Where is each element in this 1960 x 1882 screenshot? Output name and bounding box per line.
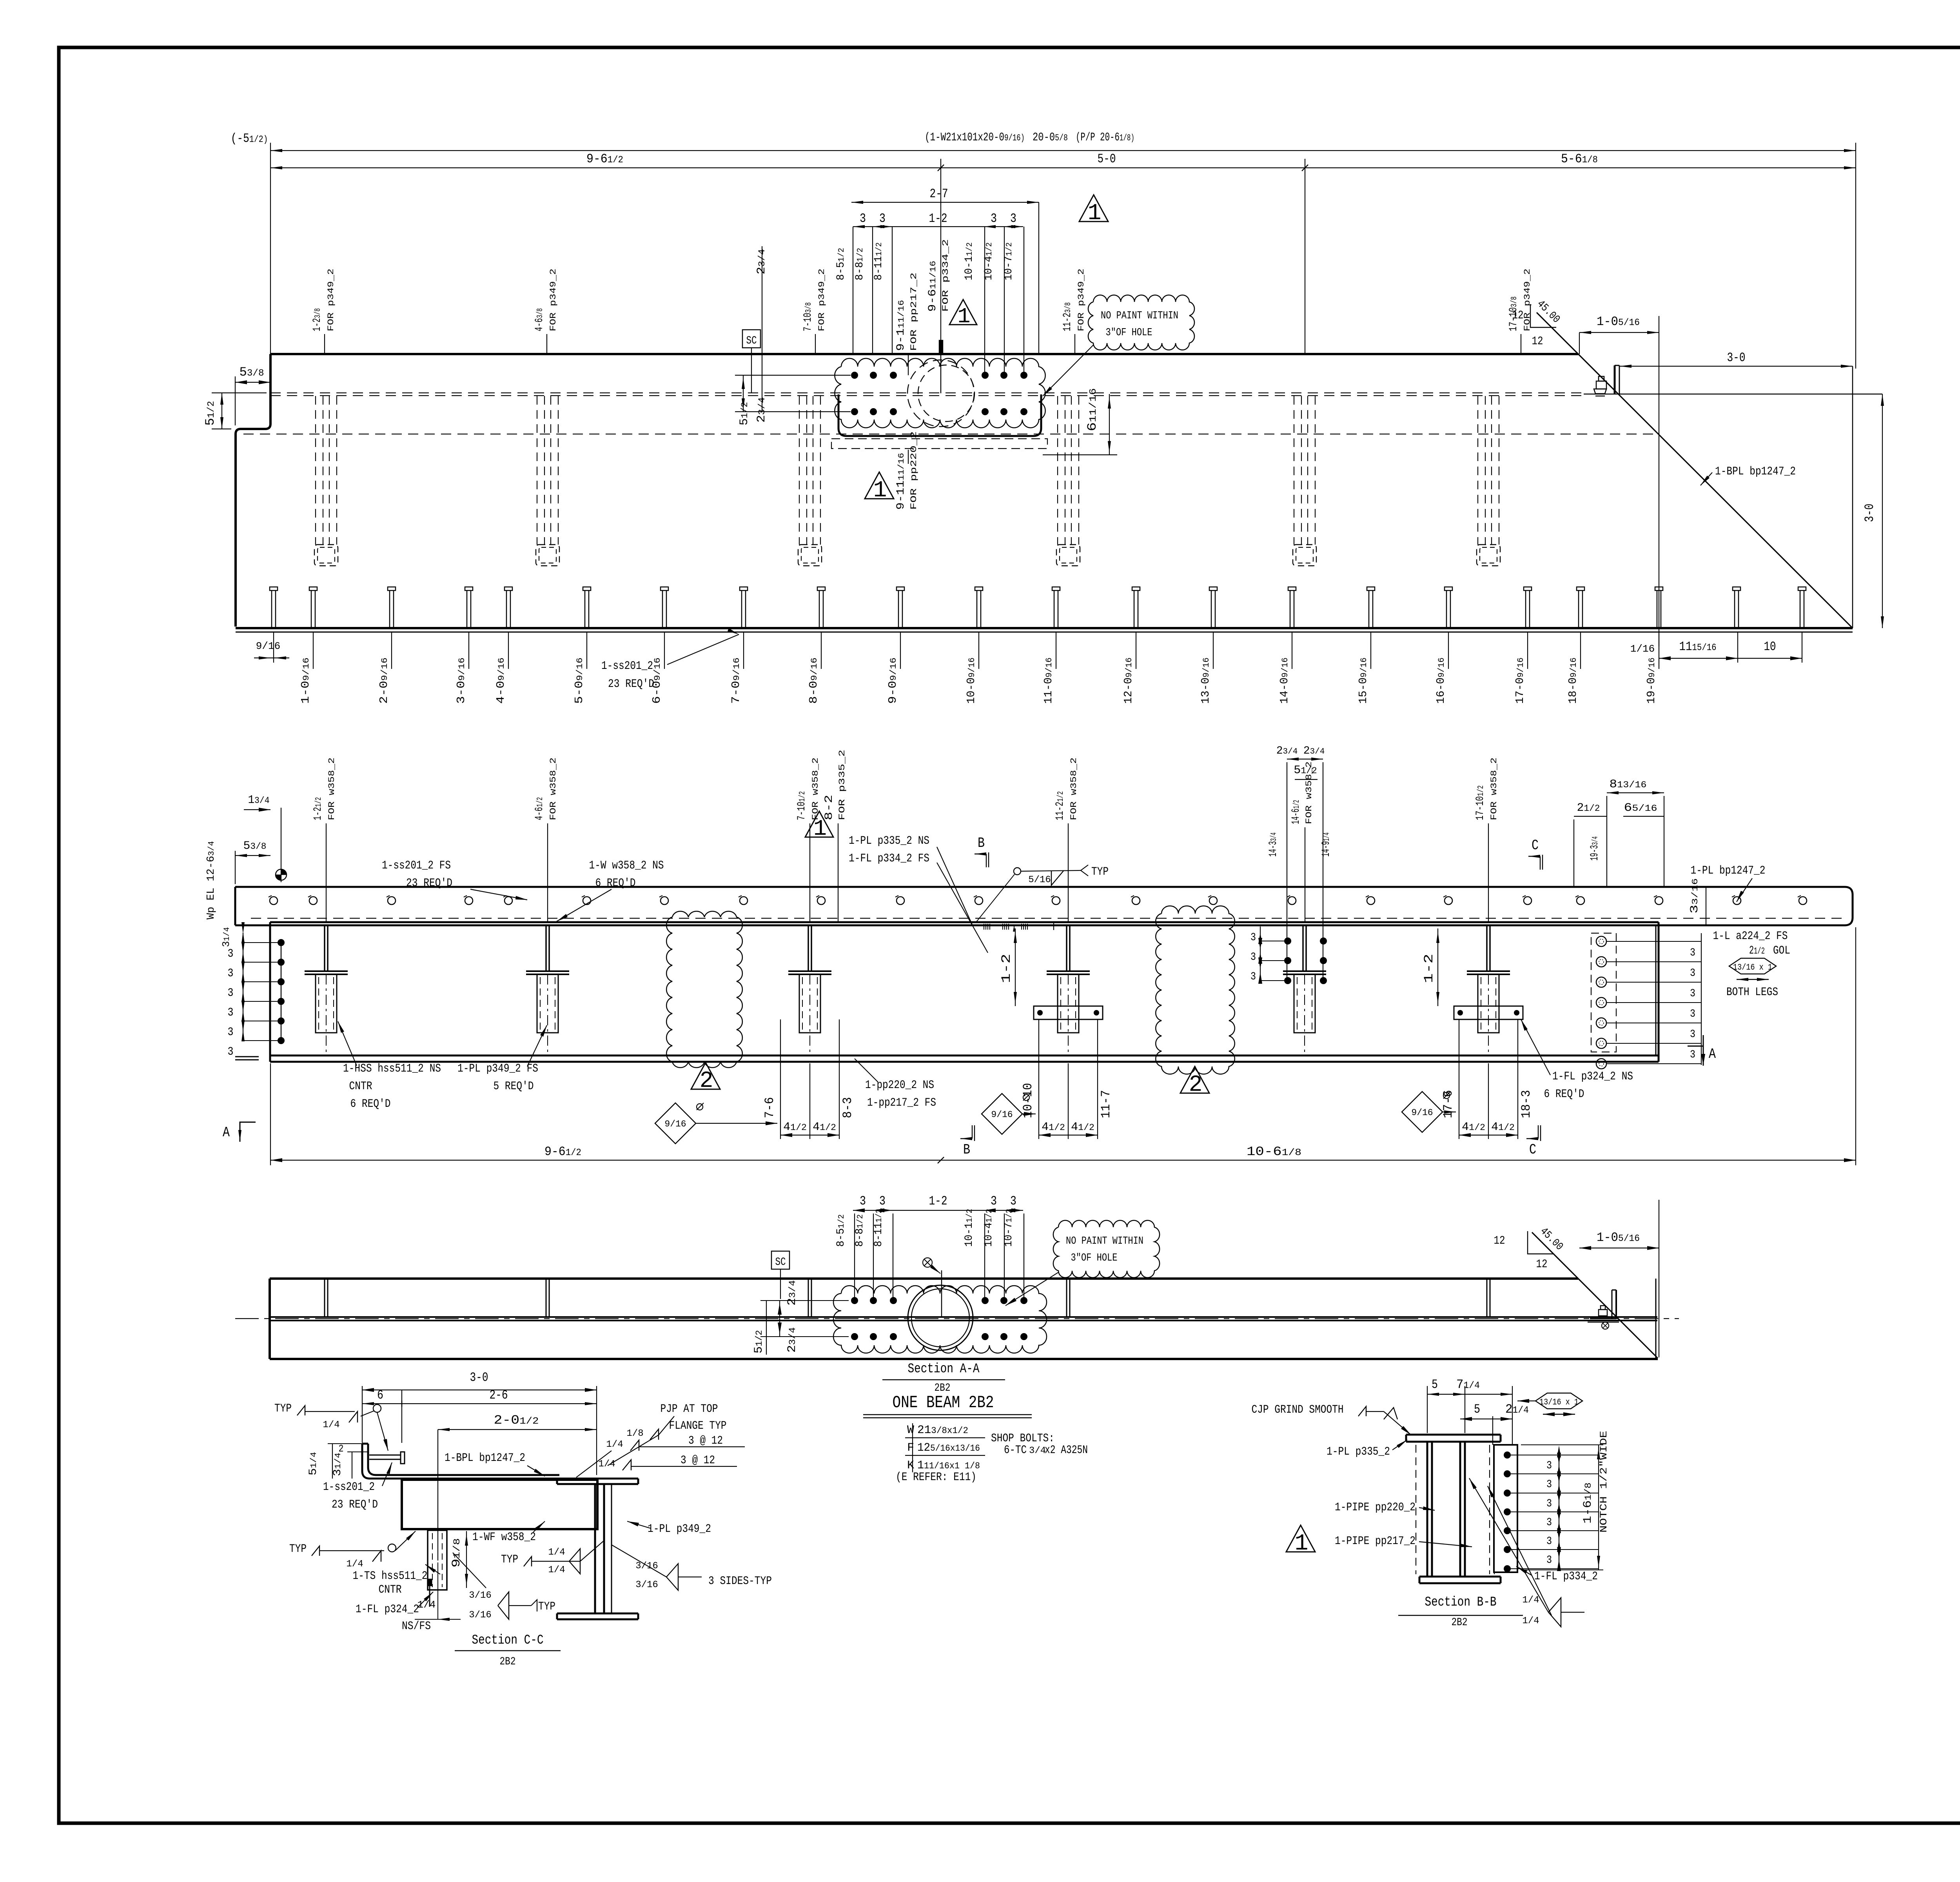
svg-text:41/2: 41/2 xyxy=(1042,1121,1065,1134)
svg-text:NO PAINT WITHIN: NO PAINT WITHIN xyxy=(1101,310,1178,322)
svg-text:3/16: 3/16 xyxy=(635,1580,658,1590)
elev p335 plate hatch ticks on flange xyxy=(984,924,984,930)
svg-text:13/4: 13/4 xyxy=(248,794,270,807)
svg-text:3: 3 xyxy=(1546,1479,1552,1491)
svg-text:FOR p349_2: FOR p349_2 xyxy=(1523,269,1532,331)
svg-text:1-W w358_2 NS: 1-W w358_2 NS xyxy=(589,859,664,872)
svg-text:FOR w358_2: FOR w358_2 xyxy=(327,758,337,820)
svg-text:6 REQ'D: 6 REQ'D xyxy=(595,877,636,890)
elev band hidden edge dashed xyxy=(251,918,1842,919)
svg-text:SC: SC xyxy=(775,1256,786,1268)
bottom view right-end vertical ext xyxy=(1659,1200,1659,1357)
svg-text:1-PIPE pp217_2: 1-PIPE pp217_2 xyxy=(1335,1535,1416,1548)
secBB beam section xyxy=(1406,1434,1501,1436)
svg-text:9/16: 9/16 xyxy=(1411,1108,1433,1118)
svg-text:213/8x1/2: 213/8x1/2 xyxy=(917,1424,968,1437)
svg-text:Section A-A: Section A-A xyxy=(908,1362,980,1377)
svg-text:x2 A325N: x2 A325N xyxy=(1045,1444,1088,1457)
svg-text:3: 3 xyxy=(1010,1194,1016,1208)
svg-text:Section B-B: Section B-B xyxy=(1425,1595,1497,1610)
svg-text:1-FL p324_2: 1-FL p324_2 xyxy=(356,1603,419,1616)
top view bolt dots in sleeve xyxy=(851,372,858,379)
svg-text:3"OF HOLE: 3"OF HOLE xyxy=(1071,1252,1118,1264)
svg-text:1: 1 xyxy=(873,478,887,503)
svg-text:1-FL p324_2 NS: 1-FL p324_2 NS xyxy=(1552,1070,1633,1083)
elev weld diamonds 9/16 xyxy=(655,1103,696,1144)
svg-text:1: 1 xyxy=(1088,201,1102,226)
svg-text:3: 3 xyxy=(1250,971,1256,983)
svg-text:2B2: 2B2 xyxy=(935,1382,951,1394)
svg-text:3: 3 xyxy=(860,211,866,226)
svg-text:813/16: 813/16 xyxy=(1610,778,1647,791)
svg-text:2B2: 2B2 xyxy=(1452,1617,1468,1629)
svg-text:3: 3 xyxy=(1250,932,1256,944)
svg-text:1-PL p335_2 NS: 1-PL p335_2 NS xyxy=(849,834,929,848)
svg-text:51/2: 51/2 xyxy=(738,402,751,425)
svg-text:1-ss201_2: 1-ss201_2 xyxy=(601,659,653,673)
svg-text:FOR p349_2: FOR p349_2 xyxy=(1076,269,1086,331)
top view right-end vertical edge xyxy=(1659,316,1659,647)
svg-text:5 REQ'D: 5 REQ'D xyxy=(494,1080,534,1093)
svg-text:6 REQ'D: 6 REQ'D xyxy=(1544,1088,1584,1101)
svg-text:51/2: 51/2 xyxy=(752,1330,766,1353)
elev beam outline xyxy=(270,921,1659,923)
svg-text:A: A xyxy=(1709,1046,1716,1062)
svg-text:3: 3 xyxy=(1690,988,1695,1000)
svg-text:3: 3 xyxy=(860,1194,866,1208)
elev p324 plates on outriggers 4 and 6 xyxy=(1034,1006,1103,1019)
svg-text:NOTCH 1/2"WIDE: NOTCH 1/2"WIDE xyxy=(1598,1431,1610,1533)
svg-text:1-2: 1-2 xyxy=(929,211,947,226)
svg-text:3: 3 xyxy=(1546,1554,1552,1566)
svg-text:FOR p334_2: FOR p334_2 xyxy=(941,239,951,312)
svg-text:1: 1 xyxy=(1295,1531,1308,1557)
svg-text:3: 3 xyxy=(1250,951,1256,963)
svg-text:21/2: 21/2 xyxy=(1749,944,1765,957)
svg-text:3: 3 xyxy=(1546,1498,1552,1510)
svg-text:1/4: 1/4 xyxy=(598,1459,615,1470)
top view TC bolt at angle xyxy=(1596,381,1606,389)
svg-text:2-7: 2-7 xyxy=(930,187,948,201)
top view 3-0 dim top xyxy=(1620,366,1853,367)
bottom view TC bolt at angle xyxy=(1599,1310,1607,1316)
svg-text:1/8: 1/8 xyxy=(626,1428,643,1439)
elev bolt dots at outrigger 5 xyxy=(1284,937,1291,945)
svg-text:3: 3 xyxy=(1546,1517,1552,1529)
svg-text:(E REFER: E11): (E REFER: E11) xyxy=(896,1471,976,1484)
svg-text:51/2: 51/2 xyxy=(1294,764,1317,777)
svg-text:5/16: 5/16 xyxy=(1028,875,1051,885)
svg-text:SC: SC xyxy=(746,335,757,347)
svg-text:3"OF HOLE: 3"OF HOLE xyxy=(1106,327,1152,339)
svg-text:1-ss201_2 FS: 1-ss201_2 FS xyxy=(382,859,451,872)
svg-text:3/16: 3/16 xyxy=(469,1590,492,1601)
elev beam left end centerline xyxy=(235,1056,259,1057)
svg-text:3: 3 xyxy=(228,986,234,1000)
svg-text:41/2: 41/2 xyxy=(783,1121,807,1134)
bottom view beam end line xyxy=(1655,1279,1657,1359)
svg-text:1-FL p334_2 FS: 1-FL p334_2 FS xyxy=(849,852,929,865)
svg-text:1-HSS hss511_2 NS: 1-HSS hss511_2 NS xyxy=(343,1062,441,1075)
svg-text:1/4: 1/4 xyxy=(548,1547,565,1558)
svg-text:FLANGE TYP: FLANGE TYP xyxy=(669,1419,727,1433)
svg-text:12: 12 xyxy=(1532,335,1543,348)
bottom view centerline dash-dot xyxy=(235,1318,1679,1319)
svg-text:12: 12 xyxy=(1536,1258,1548,1271)
svg-text:TYP: TYP xyxy=(538,1600,555,1613)
svg-text:41/2: 41/2 xyxy=(1462,1121,1485,1134)
svg-text:B: B xyxy=(963,1142,970,1158)
svg-text:21/2: 21/2 xyxy=(1577,801,1600,815)
secBB bolt dim lines xyxy=(1511,1455,1599,1455)
svg-text:FOR w358_2: FOR w358_2 xyxy=(548,758,558,820)
svg-text:1: 1 xyxy=(813,817,827,842)
svg-text:91/8: 91/8 xyxy=(450,1538,463,1568)
svg-text:3: 3 xyxy=(1690,967,1695,979)
svg-text:3 @ 12: 3 @ 12 xyxy=(681,1454,715,1467)
svg-text:3/4: 3/4 xyxy=(1029,1446,1046,1456)
svg-text:41/2: 41/2 xyxy=(1071,1121,1094,1134)
svg-text:12: 12 xyxy=(1494,1234,1505,1248)
svg-text:TYP: TYP xyxy=(1091,865,1109,879)
svg-text:2-6: 2-6 xyxy=(490,1388,508,1402)
svg-text:1-PL p335_2: 1-PL p335_2 xyxy=(1327,1445,1390,1459)
svg-text:23/4: 23/4 xyxy=(786,1280,799,1306)
top view pipe hidden circles (dashed) xyxy=(907,360,974,427)
top view triangle 1 mid xyxy=(949,300,977,325)
svg-text:A: A xyxy=(223,1124,230,1141)
svg-text:3-0: 3-0 xyxy=(470,1370,488,1385)
svg-text:6 REQ'D: 6 REQ'D xyxy=(350,1097,391,1111)
svg-text:Section C-C: Section C-C xyxy=(472,1633,544,1648)
bottom view bolt dots xyxy=(851,1297,858,1304)
svg-text:FOR p349_2: FOR p349_2 xyxy=(326,269,336,331)
svg-text:3: 3 xyxy=(991,211,997,226)
svg-text:41/2: 41/2 xyxy=(1491,1121,1515,1134)
svg-text:18-3: 18-3 xyxy=(1519,1090,1534,1118)
svg-text:3: 3 xyxy=(879,211,886,226)
svg-text:3: 3 xyxy=(1690,947,1695,959)
svg-text:(P/P 20-61/8): (P/P 20-61/8) xyxy=(1076,131,1134,144)
svg-text:1/4: 1/4 xyxy=(323,1420,339,1430)
svg-text:TYP: TYP xyxy=(289,1542,307,1556)
secBB triangle 1 xyxy=(1286,1525,1315,1552)
elev bent plate band xyxy=(235,887,1853,925)
svg-text:PJP AT TOP: PJP AT TOP xyxy=(661,1402,718,1416)
svg-text:6-TC: 6-TC xyxy=(1004,1444,1027,1457)
svg-text:FOR pp220_2: FOR pp220_2 xyxy=(909,431,919,510)
svg-text:BOTH LEGS: BOTH LEGS xyxy=(1726,986,1778,999)
svg-text:3: 3 xyxy=(879,1194,886,1208)
elev revision cloud 2 xyxy=(1156,906,1235,1074)
svg-text:TYP: TYP xyxy=(501,1553,518,1566)
svg-text:9/16: 9/16 xyxy=(664,1119,686,1129)
bottom view outline xyxy=(270,1277,1578,1280)
secCC WF w358 plate (side) xyxy=(402,1480,597,1529)
top view 45 deg slope symbol xyxy=(1530,304,1556,327)
svg-text:2B2: 2B2 xyxy=(500,1656,516,1668)
svg-text:3-0: 3-0 xyxy=(1862,504,1877,522)
svg-text:1-L a224_2 FS: 1-L a224_2 FS xyxy=(1713,930,1788,943)
top view end angle a224 leg xyxy=(1614,365,1616,394)
top view dim line 9-6 1/2 / 5-0 / 5-6 1/8 xyxy=(270,167,1856,168)
svg-text:1/4: 1/4 xyxy=(606,1439,623,1450)
bottom view a224 angle edge xyxy=(1612,1290,1613,1319)
svg-text:FOR pp217_2: FOR pp217_2 xyxy=(909,272,919,351)
svg-text:1-ss201_2: 1-ss201_2 xyxy=(323,1481,375,1494)
svg-text:3/16: 3/16 xyxy=(469,1610,492,1620)
svg-text:23/4: 23/4 xyxy=(786,1327,799,1353)
secCC p349 plate line xyxy=(611,1484,612,1613)
svg-text:6: 6 xyxy=(377,1388,383,1402)
svg-text:3: 3 xyxy=(1690,1049,1695,1061)
svg-text:1/4: 1/4 xyxy=(548,1565,565,1575)
secBB pipe hidden dashed lines xyxy=(1416,1445,1416,1574)
top view NO PAINT note xyxy=(1088,295,1194,350)
svg-text:3: 3 xyxy=(228,1006,234,1019)
svg-text:CNTR: CNTR xyxy=(379,1583,402,1597)
top view 3-0 vertical dim right xyxy=(1882,394,1883,628)
svg-text:1-2: 1-2 xyxy=(999,954,1014,983)
svg-text:9/16: 9/16 xyxy=(991,1110,1013,1120)
svg-text:10: 10 xyxy=(1764,639,1776,654)
elev Wp work point target xyxy=(276,869,287,880)
top view outrigger hidden lines (dashed) xyxy=(315,396,316,545)
secCC stud ss201 xyxy=(369,1455,401,1456)
svg-text:3: 3 xyxy=(228,1026,234,1039)
svg-text:1-BPL bp1247_2: 1-BPL bp1247_2 xyxy=(445,1451,525,1465)
elev outriggers w358 with HSS xyxy=(305,921,348,923)
elev left bolt dots xyxy=(278,939,285,946)
elev revision cloud 1 xyxy=(666,911,742,1068)
svg-text:3: 3 xyxy=(991,1194,997,1208)
svg-text:1/4: 1/4 xyxy=(1522,1616,1539,1626)
bottom view bolt cloud xyxy=(833,1286,1047,1353)
svg-text:1-FL p334_2: 1-FL p334_2 xyxy=(1534,1570,1598,1583)
svg-text:23 REQ'D: 23 REQ'D xyxy=(332,1498,378,1511)
secBB hexagon 13/16 x 1 xyxy=(1535,1393,1583,1409)
svg-text:13/16 x 1: 13/16 x 1 xyxy=(1733,963,1772,972)
svg-text:7-6: 7-6 xyxy=(762,1097,777,1118)
svg-text:1/16: 1/16 xyxy=(1630,643,1655,655)
top view pipe sleeve cloud xyxy=(835,358,1045,428)
top view hole center mark xyxy=(940,341,941,393)
svg-text:FOR w358_2: FOR w358_2 xyxy=(1489,758,1499,820)
svg-text:CNTR: CNTR xyxy=(349,1080,372,1093)
svg-text:5-0: 5-0 xyxy=(1098,152,1116,166)
svg-text:C: C xyxy=(1529,1142,1536,1158)
svg-text:3 @ 12: 3 @ 12 xyxy=(688,1434,723,1448)
svg-text:1-2: 1-2 xyxy=(929,1194,947,1208)
top view right-end plate edge line xyxy=(1584,394,1882,395)
elev band bolt hole symbols xyxy=(270,897,278,905)
bottom view NO PAINT note xyxy=(1053,1221,1160,1278)
svg-text:FOR p349_2: FOR p349_2 xyxy=(817,269,827,331)
secCC bent plate bp1247 xyxy=(368,1444,559,1475)
svg-text:20-05/8: 20-05/8 xyxy=(1033,131,1068,144)
svg-text:1-TS hss511_2: 1-TS hss511_2 xyxy=(353,1570,428,1583)
svg-text:1/4: 1/4 xyxy=(1522,1595,1539,1606)
secCC beam W21 section xyxy=(557,1478,638,1480)
svg-text:1: 1 xyxy=(957,304,970,329)
svg-text:3-0: 3-0 xyxy=(1727,351,1746,365)
bottom view pipe hole circles xyxy=(908,1285,973,1350)
svg-text:1-PIPE pp220_2: 1-PIPE pp220_2 xyxy=(1335,1501,1416,1514)
svg-text:1-BPL bp1247_2: 1-BPL bp1247_2 xyxy=(1715,465,1796,478)
secCC HSS hss511 below xyxy=(428,1530,447,1590)
svg-text:125/16x13/16: 125/16x13/16 xyxy=(917,1441,980,1455)
svg-text:ONE BEAM 2B2: ONE BEAM 2B2 xyxy=(893,1393,994,1413)
svg-text:1-WF w358_2: 1-WF w358_2 xyxy=(472,1531,536,1544)
svg-text:Wp EL 12-63/4: Wp EL 12-63/4 xyxy=(205,841,217,919)
svg-text:111/16x1 1/8: 111/16x1 1/8 xyxy=(917,1459,980,1472)
svg-text:5: 5 xyxy=(1432,1377,1438,1392)
svg-text:8-3: 8-3 xyxy=(840,1097,855,1118)
svg-text:1-PL p349_2: 1-PL p349_2 xyxy=(648,1522,711,1536)
svg-text:1/4: 1/4 xyxy=(417,1599,436,1611)
svg-text:1/4: 1/4 xyxy=(346,1559,363,1570)
elev hexagon 13/16 x 1 xyxy=(1729,958,1776,974)
svg-text:1-PL p349_2 FS: 1-PL p349_2 FS xyxy=(457,1062,538,1075)
svg-text:1-pp220_2 NS: 1-pp220_2 NS xyxy=(865,1079,934,1092)
svg-text:FOR w358_2: FOR w358_2 xyxy=(1069,758,1079,820)
svg-text:23 REQ'D: 23 REQ'D xyxy=(608,678,654,691)
svg-text:11-7: 11-7 xyxy=(1099,1090,1113,1118)
bottom view centerline band xyxy=(270,1316,1657,1318)
svg-text:3: 3 xyxy=(1546,1535,1552,1548)
svg-text:3: 3 xyxy=(228,1045,234,1059)
svg-text:3: 3 xyxy=(1010,211,1016,226)
svg-text:3: 3 xyxy=(228,967,234,980)
svg-text:1-pp217_2 FS: 1-pp217_2 FS xyxy=(867,1096,936,1110)
svg-text:CJP GRIND SMOOTH: CJP GRIND SMOOTH xyxy=(1252,1403,1344,1417)
bottom view hole center line xyxy=(941,1270,942,1318)
top view hidden fold lines (dashed) xyxy=(270,392,1584,393)
svg-text:9/16: 9/16 xyxy=(256,640,280,652)
svg-text:B: B xyxy=(978,835,985,851)
elev triangle 1 right xyxy=(805,811,833,837)
svg-text:53/8: 53/8 xyxy=(243,839,267,853)
svg-text:TYP: TYP xyxy=(274,1402,292,1415)
svg-text:NS/FS: NS/FS xyxy=(402,1620,431,1633)
svg-text:GOL: GOL xyxy=(1773,944,1790,957)
svg-text:NO PAINT WITHIN: NO PAINT WITHIN xyxy=(1066,1235,1143,1247)
svg-text:(1-W21x101x20-09/16): (1-W21x101x20-09/16) xyxy=(925,131,1025,144)
elev right end angle bolt group xyxy=(1591,933,1616,1052)
svg-text:FOR p349_2: FOR p349_2 xyxy=(548,269,558,331)
svg-text:1-2: 1-2 xyxy=(1422,954,1436,983)
svg-text:C: C xyxy=(1532,837,1539,854)
top view shear studs xyxy=(271,590,272,628)
bottom view 45 deg slope symbol xyxy=(1528,1231,1553,1254)
svg-text:3: 3 xyxy=(1690,1008,1695,1020)
secCC p324 plate mark xyxy=(429,1586,430,1607)
svg-text:2: 2 xyxy=(1189,1072,1203,1098)
bottom view stiffener lines xyxy=(324,1279,325,1317)
elev left bolt stack dims xyxy=(243,933,243,1040)
svg-text:5: 5 xyxy=(1474,1402,1480,1417)
elev weld note 5/16 TYP xyxy=(1014,868,1021,875)
top view stud location labels xyxy=(313,632,314,669)
svg-text:W: W xyxy=(907,1424,914,1437)
svg-text:1-61/8: 1-61/8 xyxy=(1581,1482,1595,1524)
top view dashed plate below xyxy=(831,439,1047,449)
svg-text:12: 12 xyxy=(1512,309,1524,322)
elev 1-2 vertical dims at p324 outriggers xyxy=(1015,928,1016,1006)
top view SC box xyxy=(742,330,760,348)
svg-text:13/16 x 1: 13/16 x 1 xyxy=(1539,1397,1579,1407)
top view bent plate outline xyxy=(270,353,1578,355)
top view triangle 1 below sleeve xyxy=(865,472,894,499)
svg-text:FOR p335_2: FOR p335_2 xyxy=(837,750,847,820)
svg-text:3: 3 xyxy=(228,947,234,961)
top view extension lines from dims xyxy=(270,143,271,354)
svg-text:3 SIDES-TYP: 3 SIDES-TYP xyxy=(708,1575,772,1588)
svg-text:65/16: 65/16 xyxy=(1624,801,1657,815)
secBB leaders to welds xyxy=(1469,1478,1548,1612)
bottom view SC box xyxy=(771,1251,789,1269)
secBB plate p334 with bolts xyxy=(1494,1445,1517,1572)
svg-text:3: 3 xyxy=(1690,1028,1695,1041)
top view plate p334 outline xyxy=(838,394,1041,436)
top view triangle 1 above xyxy=(1079,195,1108,222)
svg-text:K: K xyxy=(907,1459,914,1472)
svg-text:SHOP BOLTS:: SHOP BOLTS: xyxy=(991,1432,1054,1445)
svg-text:23 REQ'D: 23 REQ'D xyxy=(406,877,452,890)
svg-text:3: 3 xyxy=(1546,1460,1552,1472)
svg-text:41/2: 41/2 xyxy=(813,1121,836,1134)
svg-text:F: F xyxy=(907,1441,914,1455)
svg-text:2: 2 xyxy=(700,1068,713,1094)
svg-text:1-PL bp1247_2: 1-PL bp1247_2 xyxy=(1691,864,1766,877)
